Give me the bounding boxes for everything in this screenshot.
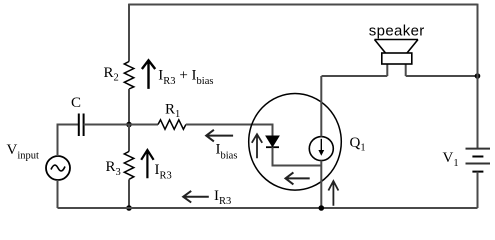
label Q1 [350, 135, 366, 154]
arrow current (up, left of diode inside Q1) [252, 134, 262, 158]
wire left vertical (top rail to R2) [128, 4, 130, 62]
wire speaker rail left segment [322, 75, 388, 77]
label V1 [443, 150, 459, 169]
wire current source to bottom rail [320, 160, 322, 208]
arrow current I_R3+I_bias (up, beside R2) [142, 60, 155, 89]
wire V_input top to capacitor row [58, 125, 79, 157]
wire capacitor to node A [84, 124, 129, 126]
label I_bias [216, 142, 238, 162]
svg-text:C: C [71, 95, 81, 111]
label I_R3 + I_bias [158, 68, 213, 87]
label I_R3 (bottom) [214, 188, 231, 207]
wire R1 to Q1 base (diode) [186, 125, 273, 136]
label V_input [7, 142, 40, 162]
wire top rail [129, 4, 478, 6]
resistor R3 [124, 151, 134, 179]
diode (base-emitter junction inside Q1) [266, 136, 279, 147]
resistor R1 [158, 120, 186, 130]
junction dot (speaker rail / right rail) [475, 73, 481, 79]
junction dot (emitter / bottom rail) [319, 205, 325, 211]
battery V1 [466, 149, 491, 172]
wire R2 to node A [128, 89, 130, 125]
junction dot bottom (R3 / bottom rail) [126, 205, 132, 211]
label speaker [369, 22, 425, 39]
wire R3 to bottom rail [128, 179, 130, 208]
speaker [375, 40, 419, 77]
label I_R3 (beside R3) [155, 162, 172, 181]
wire right vertical (top rail to battery) [477, 4, 479, 148]
label R1 [165, 101, 180, 120]
label R3 [106, 159, 121, 178]
label R2 [104, 65, 119, 84]
capacitor C [79, 114, 84, 137]
wire bottom rail [58, 207, 478, 209]
wire V_input bottom to bottom rail [57, 180, 59, 208]
transistor Q1 model envelope (circle) [249, 94, 342, 191]
svg-text:speaker: speaker [369, 22, 425, 39]
wire node A to R1 [129, 124, 158, 126]
arrow current (left, bottom inside Q1) [286, 172, 310, 184]
source V_input (AC) [46, 156, 70, 180]
wire speaker rail right segment [406, 75, 478, 77]
resistor R2 [124, 62, 134, 90]
arrow current I_R3 (up, beside R3) [141, 150, 153, 178]
wire collector up to speaker rail [320, 76, 322, 137]
wire node A to R3 [128, 125, 130, 152]
arrow current (up, emitter beside wire) [328, 181, 338, 206]
node A junction dot (C / R2 / R3 / R1) [126, 122, 132, 128]
arrow current I_R3 (left, above bottom rail) [183, 191, 209, 203]
wire diode cathode to emitter node [273, 147, 322, 165]
wire battery to bottom rail [477, 172, 479, 208]
current source (collector, inside Q1) [309, 137, 333, 161]
label C [71, 95, 81, 111]
arrow current I_bias (left, under base wire) [206, 130, 233, 142]
